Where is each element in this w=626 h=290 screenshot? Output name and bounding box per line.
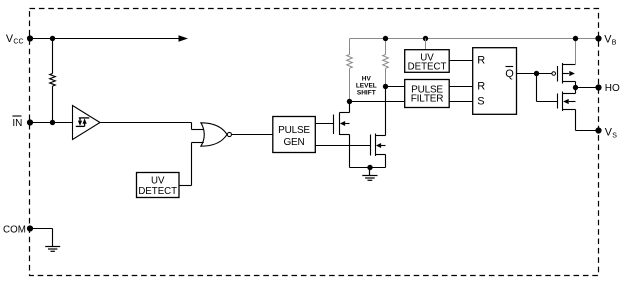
wire M1 source down (349, 135, 351, 168)
wire latch Q to output gates (517, 73, 552, 75)
svg-text:CC: CC (13, 38, 23, 45)
svg-text:FILTER: FILTER (411, 94, 444, 105)
node IN pin label with overline (12, 116, 22, 129)
buffer U1 (schmitt trigger input) (73, 106, 101, 140)
wire UV DETECT supply branch (gray) (425, 39, 427, 50)
wire M1 drain up (349, 102, 351, 113)
wire PULSE GEN to M2 gate (315, 145, 370, 147)
label HV LEVEL SHIFT (356, 76, 377, 97)
wire PULSE GEN to M1 gate (315, 123, 333, 125)
wire N-MOS source to VS (576, 110, 599, 131)
node VS pin dot (595, 127, 601, 133)
node HO pin dot (595, 84, 601, 90)
svg-text:DETECT: DETECT (408, 62, 447, 73)
node COM pin dot (27, 225, 33, 231)
transistor M1 (level shift) (334, 113, 350, 136)
wire buffer output to NOR input 1 (100, 123, 204, 130)
block UV DETECT (high side) (405, 50, 450, 73)
svg-text:HO: HO (605, 83, 620, 94)
node VB pin dot (595, 35, 601, 41)
resistor Rin (VCC to IN) (50, 39, 56, 123)
wire NOR output to PULSE GEN (232, 134, 273, 136)
wire M2 drain up (385, 87, 387, 136)
node VB pin label (604, 34, 617, 47)
node VB rail dot at R2 (383, 36, 388, 41)
svg-text:DETECT: DETECT (138, 186, 177, 197)
latch U2 (RS latch) (473, 48, 517, 115)
node VCC junction dot (50, 36, 55, 41)
svg-text:LEVEL: LEVEL (356, 83, 377, 90)
node IN pin dot (27, 119, 33, 125)
transistor M2 (level shift) (371, 134, 386, 157)
node ground junction dot (367, 165, 372, 170)
gate G1 NOR (201, 123, 232, 146)
node VB rail dot at output branch (573, 36, 578, 41)
resistor R2 (HV level shift) (383, 39, 389, 87)
block PULSE FILTER (405, 80, 450, 108)
wire PULSE FILTER to latch S (449, 101, 473, 103)
node IN junction dot (50, 120, 55, 125)
block PULSE GEN (273, 117, 316, 153)
node VS pin label (605, 126, 618, 139)
block UV DETECT (input side) (137, 173, 180, 198)
wire PULSE FILTER to latch R (449, 86, 473, 88)
wire M2 source down (385, 155, 387, 168)
ground symbol (level shift) (362, 168, 377, 181)
svg-text:Q: Q (505, 68, 514, 80)
wire Q to N-MOS gate (537, 74, 558, 102)
wire VCC rail with arrow (30, 35, 188, 42)
transistor Q2 output N-MOS (558, 92, 576, 112)
wire R1 tap to PULSE FILTER input 2 (350, 101, 405, 103)
ground symbol (COM) (45, 247, 60, 252)
node junction dot R2 tap (383, 84, 388, 89)
wire UV DETECT to latch R (449, 60, 473, 62)
svg-text:UV: UV (151, 175, 165, 186)
svg-text:PULSE: PULSE (278, 125, 310, 136)
svg-text:HV: HV (362, 76, 372, 83)
node VCC pin label (6, 33, 24, 46)
svg-text:R: R (477, 81, 485, 93)
svg-text:R: R (477, 54, 485, 66)
wire UV detect to NOR input 2 (179, 143, 204, 186)
hysteresis glyph inside buffer (76, 118, 90, 127)
svg-text:S: S (612, 133, 617, 140)
svg-text:B: B (612, 39, 617, 46)
wire R2 tap to PULSE FILTER input 1 (386, 86, 405, 88)
transistor Q1 output P-MOS (552, 63, 576, 94)
svg-text:COM: COM (3, 224, 26, 235)
resistor R1 (HV level shift) (347, 39, 353, 102)
wire COM to ground (30, 229, 53, 247)
wire level-shift source rail (350, 167, 386, 169)
node junction dot R1 tap (347, 99, 352, 104)
svg-text:GEN: GEN (283, 137, 304, 148)
wire VB branch to P-MOS source (gray) (575, 39, 577, 65)
node Q junction dot (534, 71, 539, 76)
wire IN to buffer (30, 122, 73, 124)
wire VB rail (gray) (350, 38, 599, 40)
node HO junction dot (573, 85, 578, 90)
svg-text:IN: IN (12, 118, 22, 129)
wire HO output (576, 87, 599, 89)
svg-text:SHIFT: SHIFT (357, 90, 376, 97)
svg-text:S: S (477, 96, 484, 108)
node VB rail dot at UV branch (423, 36, 428, 41)
node VCC pin dot (27, 35, 33, 41)
